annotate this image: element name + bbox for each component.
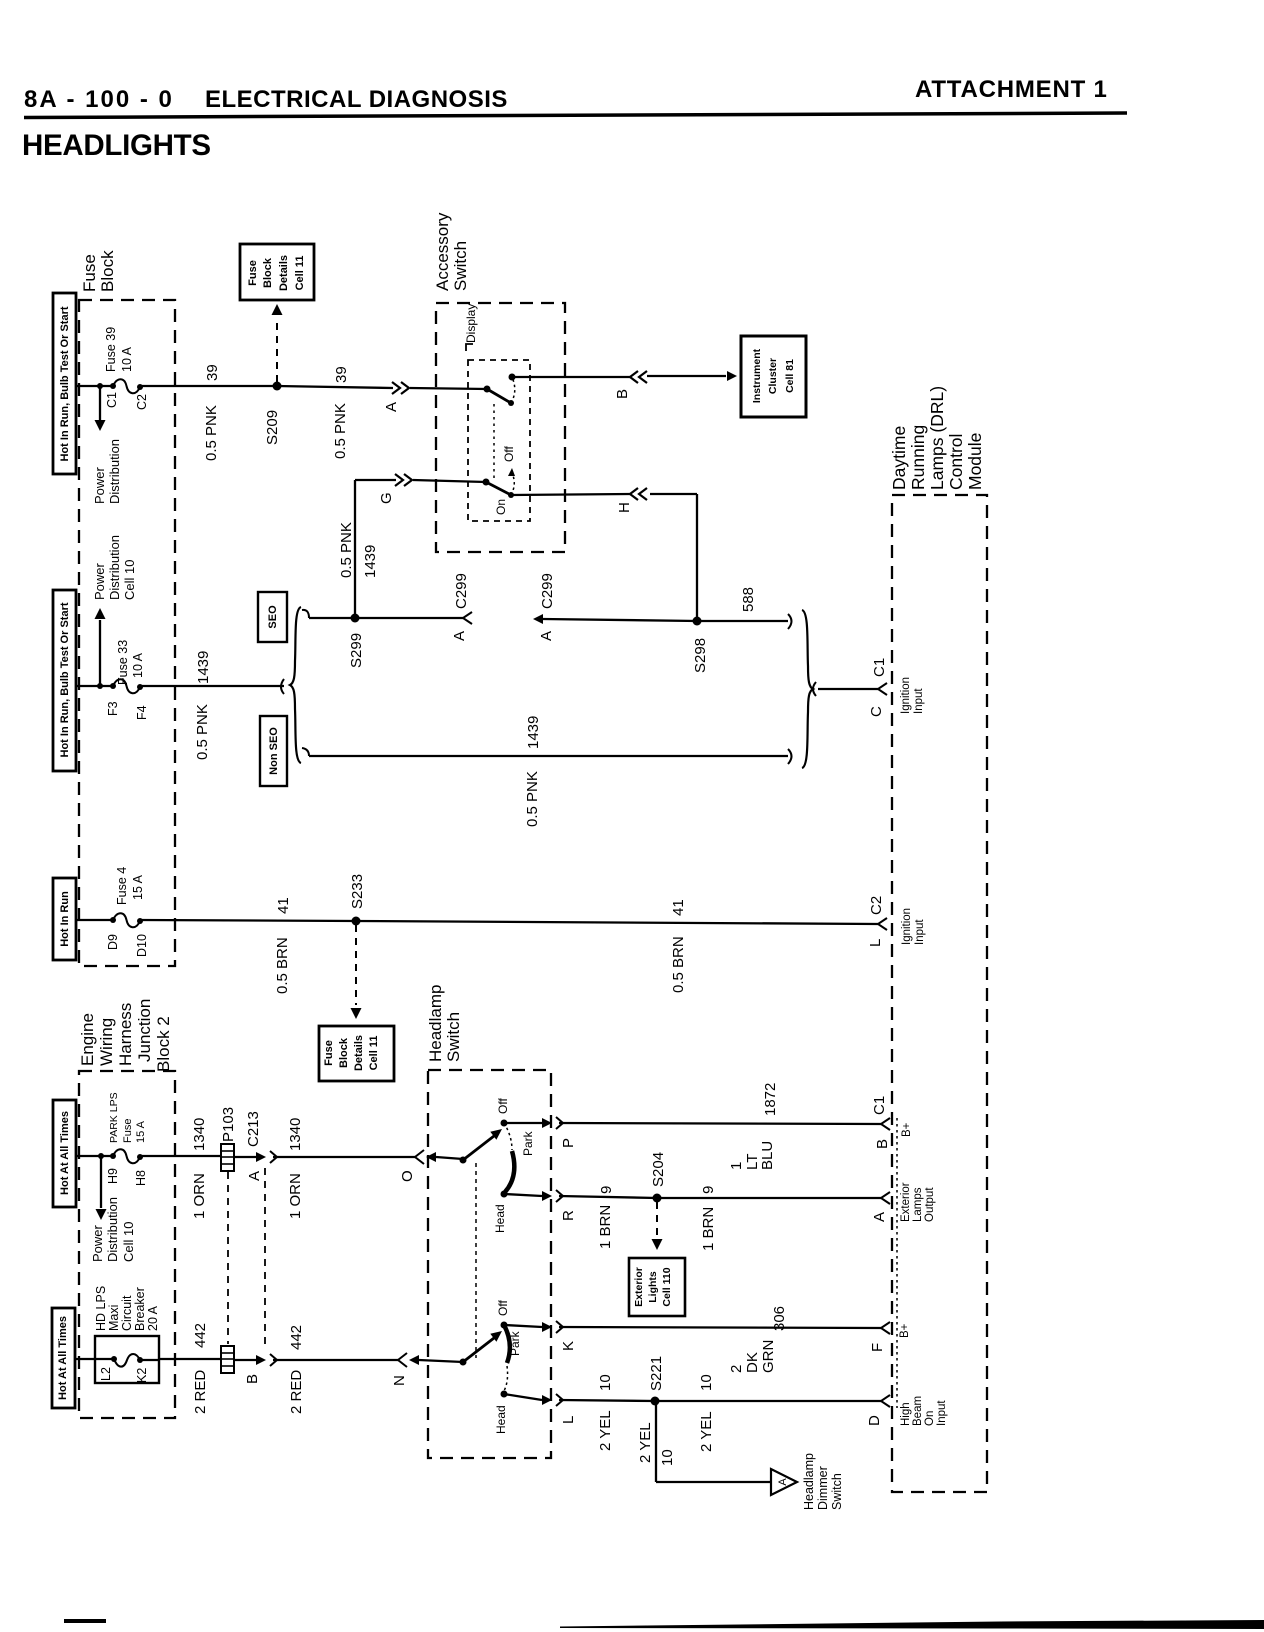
- fuse F33 10A: [110, 683, 116, 689]
- svg-text:Lamps: Lamps: [912, 1187, 924, 1222]
- reference box Fuse Block Details Cell 11 (bottom): [319, 1026, 394, 1081]
- headlamp switch pole 2 (headlamps): [460, 1359, 467, 1366]
- svg-text:S209: S209: [264, 410, 281, 445]
- svg-text:Switch: Switch: [444, 1012, 463, 1062]
- fuse F39 10A: [110, 383, 116, 389]
- svg-text:306: 306: [771, 1306, 788, 1331]
- svg-text:C213: C213: [245, 1111, 262, 1147]
- svg-text:Engine: Engine: [78, 1013, 97, 1066]
- fuse block dashed box: [79, 300, 175, 966]
- svg-text:Fuse 33: Fuse 33: [116, 640, 130, 685]
- feed label box Hot At All Times (row5): [52, 1308, 75, 1408]
- DRL control module dashed box: [892, 495, 987, 1492]
- svg-text:1 ORN: 1 ORN: [191, 1173, 208, 1219]
- svg-text:S298: S298: [692, 638, 709, 673]
- svg-text:10: 10: [597, 1374, 614, 1391]
- header rule: [24, 113, 1127, 118]
- wiper track pole1: [504, 1123, 512, 1150]
- wire row4 feed: [77, 1155, 113, 1157]
- wire Off contact to pin P: [504, 1122, 542, 1124]
- inline connector G: [395, 474, 403, 486]
- circuit breaker HD LPS box: [95, 1336, 159, 1383]
- svg-text:Fuse: Fuse: [323, 1040, 335, 1066]
- svg-text:A: A: [383, 402, 400, 412]
- svg-text:2 YEL: 2 YEL: [698, 1411, 715, 1452]
- svg-text:Input: Input: [936, 1400, 948, 1426]
- power distribution down arrow row1: [97, 383, 103, 389]
- svg-text:Park: Park: [521, 1130, 535, 1156]
- wire P103 to C213 row5: [234, 1359, 256, 1361]
- wire row5 to P103: [159, 1358, 221, 1360]
- headlamp switch connector N: [398, 1353, 407, 1367]
- wire row1 S209 to connector A: [277, 386, 393, 388]
- wire On contact to connector H: [511, 494, 630, 495]
- wire row1 feed: [77, 385, 113, 387]
- svg-text:B: B: [614, 389, 631, 399]
- reference box Fuse Block Details Cell 11 (top): [240, 244, 314, 300]
- svg-text:BLU: BLU: [759, 1141, 776, 1170]
- svg-text:B: B: [874, 1139, 891, 1149]
- svg-text:0.5 PNK: 0.5 PNK: [338, 522, 355, 578]
- svg-text:39: 39: [204, 364, 221, 381]
- svg-text:S233: S233: [349, 874, 366, 909]
- svg-text:Block 2: Block 2: [154, 1016, 173, 1072]
- svg-text:1340: 1340: [191, 1118, 208, 1151]
- svg-text:D10: D10: [135, 934, 149, 957]
- wire row1 to S209: [140, 385, 277, 387]
- svg-text:Junction: Junction: [135, 999, 154, 1062]
- svg-text:Block: Block: [262, 257, 274, 288]
- svg-text:0.5 PNK: 0.5 PNK: [524, 771, 541, 827]
- dashed reference arrow S209 to fuse block details: [276, 317, 278, 382]
- svg-text:L: L: [867, 939, 884, 947]
- svg-text:Cell 110: Cell 110: [661, 1267, 673, 1306]
- splice S204: [653, 1194, 662, 1203]
- svg-text:Off: Off: [496, 1098, 510, 1114]
- svg-text:F3: F3: [106, 701, 120, 716]
- svg-text:Fuse 4: Fuse 4: [115, 867, 129, 905]
- reference box Instrument Cluster Cell 81: [741, 336, 806, 417]
- svg-text:Breaker: Breaker: [133, 1287, 147, 1331]
- svg-text:442: 442: [192, 1323, 209, 1348]
- module pin C C1 ignition input: [878, 683, 887, 695]
- svg-text:Ignition: Ignition: [901, 908, 913, 945]
- svg-text:P103: P103: [220, 1107, 237, 1142]
- svg-text:Block: Block: [338, 1037, 350, 1068]
- wire S299 up to row G: [354, 480, 356, 618]
- svg-text:Daytime: Daytime: [889, 426, 909, 490]
- svg-text:B: B: [244, 1374, 261, 1384]
- svg-text:Beam: Beam: [912, 1396, 924, 1426]
- svg-text:C1: C1: [871, 658, 888, 677]
- svg-text:Cell 10: Cell 10: [121, 1222, 136, 1262]
- svg-text:ELECTRICAL DIAGNOSIS: ELECTRICAL DIAGNOSIS: [205, 86, 508, 113]
- engine junction block dashed box: [79, 1071, 175, 1418]
- svg-text:8A - 100 - 0: 8A - 100 - 0: [24, 86, 174, 113]
- wire P to module pin B: [559, 1123, 881, 1124]
- mechanical linkage dotted headlamp switch: [475, 1163, 477, 1358]
- switch pole 2 on/off: [483, 479, 490, 486]
- wire C213 to headlamp switch pin N: [273, 1359, 398, 1361]
- svg-text:High: High: [900, 1402, 912, 1426]
- svg-text:Distribution: Distribution: [107, 535, 122, 600]
- svg-text:G: G: [378, 492, 395, 504]
- wire C213 to headlamp switch pin O: [273, 1156, 415, 1158]
- svg-text:Dimmer: Dimmer: [816, 1466, 830, 1510]
- svg-text:39: 39: [333, 366, 350, 383]
- svg-text:Fuse: Fuse: [247, 260, 259, 286]
- svg-text:1439: 1439: [195, 651, 212, 684]
- inline connector A of accessory switch: [392, 382, 400, 394]
- headlamp switch pole 1 (park lamps): [460, 1157, 467, 1164]
- svg-text:A: A: [451, 631, 468, 641]
- svg-text:9: 9: [700, 1186, 717, 1194]
- connector C299 male half: [533, 614, 543, 624]
- wire S298 to merge brace: [697, 620, 788, 622]
- svg-text:2 YEL: 2 YEL: [597, 1410, 614, 1451]
- svg-text:S204: S204: [650, 1152, 667, 1187]
- wire S221 branch to dimmer switch: [655, 1401, 657, 1482]
- svg-text:15 A: 15 A: [135, 1120, 147, 1143]
- wiper track pole2 headlamp: [504, 1325, 510, 1363]
- svg-text:1: 1: [728, 1162, 745, 1170]
- wire S233 to module pin L: [356, 921, 878, 924]
- svg-text:HEADLIGHTS: HEADLIGHTS: [22, 129, 211, 162]
- svg-text:N: N: [391, 1375, 408, 1386]
- wire S204 to module pin A: [657, 1197, 881, 1199]
- svg-text:Hot In Run, Bulb Test Or Start: Hot In Run, Bulb Test Or Start: [59, 602, 71, 757]
- svg-text:Hot At All Times: Hot At All Times: [59, 1111, 71, 1195]
- wire display contact to connector B: [512, 376, 630, 378]
- svg-text:A: A: [871, 1212, 888, 1222]
- svg-text:2 RED: 2 RED: [192, 1370, 209, 1414]
- svg-text:On: On: [494, 499, 508, 515]
- svg-text:Switch: Switch: [830, 1473, 844, 1510]
- power distribution down arrow row4: [98, 1153, 104, 1159]
- splice S298: [693, 617, 702, 626]
- svg-text:Circuit: Circuit: [120, 1295, 134, 1331]
- svg-text:Head: Head: [493, 1204, 507, 1233]
- module connector face dotted line: [896, 1118, 898, 1408]
- svg-text:Input: Input: [914, 919, 926, 945]
- SEO tag box: [258, 592, 287, 642]
- svg-text:Lights: Lights: [647, 1271, 659, 1303]
- svg-text:F4: F4: [135, 705, 149, 720]
- svg-text:0.5 PNK: 0.5 PNK: [194, 704, 211, 760]
- svg-text:C299: C299: [539, 573, 556, 609]
- svg-text:Head: Head: [494, 1405, 508, 1434]
- fuse PARK LPS 15A: [110, 1153, 116, 1159]
- svg-text:Off: Off: [502, 446, 516, 462]
- feed label box Hot In Run Bulb Test Or Start (row 2): [53, 590, 76, 771]
- svg-text:O: O: [399, 1170, 416, 1182]
- svg-text:1439: 1439: [525, 716, 542, 749]
- feed label box Hot At All Times (row4): [53, 1100, 76, 1207]
- svg-text:0.5 PNK: 0.5 PNK: [332, 403, 349, 459]
- svg-text:S221: S221: [648, 1356, 665, 1391]
- module pin A exterior lamps output: [881, 1192, 890, 1204]
- svg-text:Block: Block: [98, 250, 117, 292]
- svg-text:1 BRN: 1 BRN: [597, 1205, 614, 1249]
- svg-text:0.5 BRN: 0.5 BRN: [670, 936, 687, 993]
- svg-text:1340: 1340: [287, 1118, 304, 1151]
- svg-text:F: F: [869, 1343, 886, 1352]
- headlamp dimmer switch symbol: [771, 1469, 797, 1495]
- svg-text:A: A: [538, 631, 555, 641]
- wire H to S298: [650, 493, 697, 495]
- svg-text:Fuse: Fuse: [122, 1119, 134, 1143]
- svg-text:Park: Park: [508, 1330, 522, 1356]
- scan artifact bottom left dash: [64, 1619, 106, 1623]
- splice S209: [273, 382, 282, 391]
- wire row3 feed: [77, 919, 113, 921]
- svg-text:D9: D9: [106, 934, 120, 950]
- reference box Exterior Lights Cell 110: [629, 1258, 685, 1316]
- svg-text:1 ORN: 1 ORN: [287, 1173, 304, 1219]
- module pin F B+: [881, 1322, 890, 1334]
- svg-text:Details: Details: [278, 255, 290, 291]
- svg-text:Cell 10: Cell 10: [122, 560, 137, 600]
- svg-text:Hot At All Times: Hot At All Times: [57, 1316, 69, 1400]
- svg-text:Cell 81: Cell 81: [784, 359, 796, 393]
- svg-text:SEO: SEO: [267, 605, 279, 629]
- inline connector H: [630, 488, 638, 500]
- scan artifact bottom wedge: [560, 1620, 1264, 1629]
- svg-text:10: 10: [659, 1449, 676, 1466]
- mechanical linkage dotted: [493, 404, 495, 478]
- svg-text:Wiring: Wiring: [97, 1018, 116, 1066]
- svg-text:C1: C1: [871, 1096, 888, 1115]
- svg-text:DK: DK: [744, 1352, 761, 1373]
- option split brace: [281, 679, 284, 694]
- svg-text:P: P: [560, 1138, 577, 1148]
- feed label box Hot In Run Bulb Test Or Start (row 1): [53, 293, 76, 474]
- svg-text:Power: Power: [92, 466, 107, 504]
- svg-text:Power: Power: [90, 1224, 105, 1262]
- module pin L C2 ignition input: [878, 918, 887, 930]
- splice S221: [651, 1397, 660, 1406]
- svg-text:Switch: Switch: [451, 241, 470, 291]
- svg-text:Hot In Run, Bulb Test Or Start: Hot In Run, Bulb Test Or Start: [59, 306, 71, 461]
- svg-text:On: On: [924, 1411, 936, 1426]
- svg-text:HD LPS: HD LPS: [94, 1286, 108, 1331]
- svg-text:Headlamp: Headlamp: [802, 1453, 816, 1510]
- svg-text:A: A: [246, 1171, 263, 1181]
- svg-text:L: L: [560, 1416, 577, 1424]
- svg-text:Distribution: Distribution: [105, 1197, 120, 1262]
- wire to instrument cluster: [647, 375, 726, 377]
- svg-text:C2: C2: [868, 896, 885, 915]
- svg-text:C299: C299: [453, 573, 470, 609]
- svg-text:1439: 1439: [362, 545, 379, 578]
- svg-text:Exterior: Exterior: [900, 1182, 912, 1222]
- svg-text:H9: H9: [106, 1168, 120, 1184]
- svg-text:Lamps (DRL): Lamps (DRL): [927, 386, 947, 490]
- svg-text:Power: Power: [92, 562, 107, 600]
- svg-text:B+: B+: [901, 1122, 913, 1137]
- svg-text:1872: 1872: [762, 1083, 779, 1116]
- dashed link between P103 halves: [227, 1172, 229, 1344]
- connector C299 female half (SEO): [463, 612, 472, 624]
- svg-text:Off: Off: [496, 1300, 510, 1316]
- svg-text:Cell 11: Cell 11: [368, 1036, 380, 1071]
- svg-text:Maxi: Maxi: [107, 1305, 121, 1331]
- svg-text:2 YEL: 2 YEL: [637, 1422, 654, 1463]
- svg-text:Harness: Harness: [116, 1003, 135, 1066]
- wire Off contact to pin K: [504, 1325, 542, 1327]
- svg-text:Ignition: Ignition: [900, 677, 912, 714]
- svg-text:Display: Display: [464, 304, 478, 343]
- pass-through grommet P103 (row5): [221, 1346, 234, 1373]
- svg-text:588: 588: [740, 587, 757, 612]
- svg-text:41: 41: [670, 899, 687, 916]
- splice S233: [352, 917, 361, 926]
- svg-text:H: H: [616, 502, 633, 513]
- svg-text:K: K: [560, 1341, 577, 1351]
- dashed link between C213 halves: [264, 1168, 266, 1350]
- svg-text:Instrument: Instrument: [751, 348, 763, 403]
- inline connector C213 pin A: [256, 1152, 266, 1162]
- headlamp switch connector O: [415, 1150, 424, 1164]
- svg-text:B+: B+: [899, 1323, 911, 1338]
- svg-text:C2: C2: [135, 394, 149, 410]
- svg-text:A: A: [777, 1478, 789, 1486]
- fuse F4 15A: [110, 917, 116, 923]
- svg-text:442: 442: [288, 1325, 305, 1350]
- wire R to S204: [559, 1196, 657, 1198]
- svg-text:Headlamp: Headlamp: [426, 985, 445, 1063]
- svg-text:Fuse: Fuse: [80, 254, 99, 292]
- pass-through grommet P103: [221, 1144, 234, 1171]
- svg-text:10 A: 10 A: [131, 652, 145, 678]
- feed label box Hot In Run: [53, 878, 76, 960]
- svg-text:Exterior: Exterior: [633, 1267, 645, 1307]
- svg-text:L2: L2: [99, 1367, 113, 1381]
- wire Head contact to pin R: [504, 1194, 542, 1196]
- splice S299: [351, 614, 360, 623]
- svg-text:GRN: GRN: [760, 1340, 777, 1373]
- svg-text:10 A: 10 A: [120, 346, 134, 372]
- svg-text:Accessory: Accessory: [433, 212, 452, 291]
- merge brace to DRL: [802, 610, 813, 768]
- wire row2 to option brace: [140, 685, 284, 687]
- svg-text:R: R: [560, 1210, 577, 1221]
- svg-text:ATTACHMENT 1: ATTACHMENT 1: [915, 76, 1108, 103]
- svg-text:Distribution: Distribution: [107, 439, 122, 504]
- svg-text:41: 41: [275, 897, 292, 914]
- svg-text:Control: Control: [946, 434, 966, 490]
- wire row5 feed: [75, 1358, 114, 1360]
- wire SEO branch: [302, 610, 309, 618]
- svg-text:Non SEO: Non SEO: [268, 727, 280, 775]
- wire row G to connector: [355, 479, 396, 481]
- svg-text:S299: S299: [348, 633, 365, 668]
- wire S221 to module pin D: [655, 1400, 881, 1402]
- wire K to module pin F: [559, 1327, 881, 1328]
- svg-text:2: 2: [728, 1365, 745, 1373]
- module pin B C1 B+: [881, 1118, 890, 1130]
- svg-text:C: C: [868, 706, 885, 717]
- accessory switch dashed box: [436, 303, 565, 552]
- svg-text:H8: H8: [134, 1170, 148, 1186]
- switch pole 1 display: [484, 386, 491, 393]
- power distribution up arrow row2: [97, 683, 103, 689]
- svg-text:10: 10: [698, 1374, 715, 1391]
- wire Head contact to pin L: [504, 1394, 542, 1400]
- svg-text:Module: Module: [965, 433, 985, 490]
- wire row4 to P103: [140, 1155, 221, 1157]
- wire row2 feed: [77, 685, 113, 687]
- svg-text:1 BRN: 1 BRN: [700, 1207, 717, 1251]
- accessory switch inner dashed box: [468, 360, 530, 521]
- inline connector B: [630, 371, 638, 383]
- wire P103 to C213: [234, 1156, 256, 1158]
- svg-text:K2: K2: [135, 1368, 149, 1383]
- svg-text:Cell 11: Cell 11: [294, 256, 306, 291]
- wire L to S221: [559, 1400, 655, 1401]
- svg-text:20 A: 20 A: [146, 1305, 160, 1331]
- wire Non SEO branch: [302, 748, 309, 756]
- svg-text:0.5 PNK: 0.5 PNK: [203, 405, 220, 461]
- svg-text:Input: Input: [913, 688, 925, 714]
- svg-text:Hot In Run: Hot In Run: [59, 891, 71, 947]
- dashed reference arrow S233 to fuse block details: [355, 925, 357, 1005]
- dashed reference arrow S204 to exterior lights: [656, 1202, 658, 1238]
- svg-text:15 A: 15 A: [131, 874, 145, 900]
- headlamp switch dashed box: [428, 1070, 551, 1458]
- inline connector C213 pin B: [256, 1355, 266, 1365]
- svg-text:Cluster: Cluster: [767, 358, 779, 394]
- svg-text:D: D: [866, 1415, 883, 1426]
- svg-text:2 RED: 2 RED: [288, 1370, 305, 1414]
- Non SEO tag box: [260, 716, 287, 786]
- svg-text:Details: Details: [353, 1035, 365, 1071]
- svg-text:C1: C1: [105, 392, 119, 408]
- svg-text:Fuse 39: Fuse 39: [104, 327, 118, 372]
- svg-text:Running: Running: [908, 425, 928, 490]
- module pin D high beam on input: [881, 1395, 890, 1407]
- svg-text:PARK LPS: PARK LPS: [108, 1092, 120, 1143]
- svg-text:Output: Output: [924, 1187, 936, 1222]
- wire to module pin C: [818, 688, 878, 690]
- svg-text:0.5 BRN: 0.5 BRN: [274, 937, 291, 994]
- svg-text:9: 9: [598, 1186, 615, 1194]
- wire row3 to S233: [140, 920, 356, 921]
